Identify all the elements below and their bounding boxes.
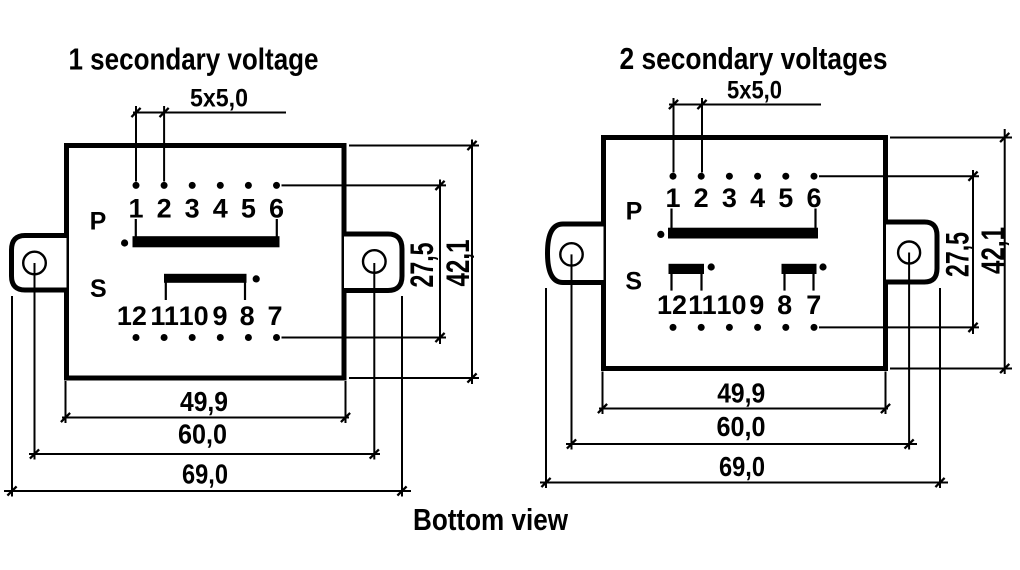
tick left 69,0 (left): [7, 486, 16, 495]
dimension line 27,5 (right): [972, 170, 974, 334]
pin 5 dot (right): [782, 173, 789, 180]
pin 6 dot (left): [273, 182, 280, 189]
pin 3 dot (left): [189, 182, 196, 189]
left tab hole (left diagram): [23, 252, 46, 275]
extension line from body top to 42,1 dim (left): [349, 145, 479, 147]
tick at pin1 (left 5x5,0): [131, 108, 140, 117]
tick right 49,9 (right): [881, 404, 890, 413]
right tab hole (left diagram): [363, 250, 386, 273]
pin 12 dot (left): [133, 334, 140, 341]
dimension line 49,9 (left): [62, 417, 349, 419]
secondary winding leg pin11 (left): [165, 283, 167, 301]
svg-text:5x5,0: 5x5,0: [727, 76, 782, 104]
tick left 49,9 (left): [61, 413, 70, 422]
svg-text:7: 7: [806, 290, 821, 320]
svg-text:49,9: 49,9: [717, 378, 765, 409]
tick bottom 27,5 (left): [435, 333, 444, 342]
secondary winding 2 bar (right): [782, 264, 817, 274]
extension line right hole for 60,0 (right): [908, 253, 910, 450]
svg-text:P: P: [90, 208, 107, 236]
pin 11 dot (right): [698, 324, 705, 331]
svg-text:11: 11: [688, 290, 717, 320]
svg-text:5: 5: [241, 194, 256, 224]
extension line pin1 (right 5x5,0): [673, 98, 675, 173]
tick bottom 42,1 (right): [1000, 364, 1009, 373]
secondary winding 1 phase dot (right): [708, 263, 715, 270]
primary phase dot (left): [121, 239, 128, 246]
extension line left hole for 60,0 (left): [34, 263, 36, 460]
tick right 60,0 (right): [905, 439, 914, 448]
pin 2 dot (right): [698, 173, 705, 180]
tick right 69,0 (left): [397, 486, 406, 495]
pin 8 dot (left): [245, 334, 252, 341]
dimension line 60,0 (right): [566, 443, 917, 445]
pin 5 dot (left): [245, 182, 252, 189]
pin 6 dot (right): [811, 173, 818, 180]
secondary winding 2 leg pin7 (right): [812, 274, 814, 291]
svg-text:3: 3: [722, 183, 737, 213]
pin 9 dot (left): [217, 334, 224, 341]
svg-text:27,5: 27,5: [940, 232, 976, 277]
svg-text:5x5,0: 5x5,0: [190, 85, 248, 113]
tick left 60,0 (right): [567, 439, 576, 448]
svg-text:60,0: 60,0: [178, 419, 227, 450]
secondary winding 2 leg pin8 (right): [783, 274, 785, 291]
dimension line 60,0 (left): [29, 453, 380, 455]
extension line pin1 (left 5x5,0): [135, 106, 137, 182]
pin 3 dot (right): [726, 173, 733, 180]
extension line left tab edge for 69,0 (left): [11, 296, 13, 497]
transformer body outline (right): [604, 138, 886, 369]
pin 10 dot (right): [726, 324, 733, 331]
tick top 27,5 (left): [435, 181, 444, 190]
dimension line 5x5,0 (right): [669, 104, 821, 106]
pin 10 dot (left): [189, 334, 196, 341]
extension line from pin 6 to 27,5 dim (left): [282, 184, 447, 186]
svg-text:1: 1: [665, 183, 680, 213]
left tab hole (right diagram): [560, 243, 582, 265]
svg-text:8: 8: [240, 301, 255, 331]
extension line right tab edge for 69,0 (right): [939, 288, 941, 488]
tick top 42,1 (left): [467, 141, 476, 150]
primary phase dot (right): [657, 231, 664, 238]
extension line body left for 49,9 (right): [602, 372, 604, 415]
svg-text:4: 4: [750, 183, 765, 213]
right mounting tab (left diagram): [344, 234, 402, 291]
tick at pin2 (left 5x5,0): [160, 108, 169, 117]
tick bottom 27,5 (right): [968, 323, 977, 332]
svg-text:5: 5: [778, 183, 793, 213]
pin 2 dot (left): [161, 182, 168, 189]
svg-text:2: 2: [157, 194, 172, 224]
primary winding leg pin6 (right): [814, 209, 816, 229]
extension line body left for 49,9 (left): [65, 381, 67, 423]
svg-text:42,1: 42,1: [440, 240, 476, 287]
pin 7 dot (right): [811, 324, 818, 331]
svg-text:10: 10: [716, 290, 746, 320]
svg-text:6: 6: [806, 183, 821, 213]
extension line from body bottom to 42,1 dim (right): [890, 368, 1012, 370]
dimension line 27,5 (left): [439, 180, 441, 345]
tick top 42,1 (right): [1000, 133, 1009, 142]
tick left 69,0 (right): [541, 478, 550, 487]
right tab hole (right diagram): [898, 242, 920, 264]
svg-text:3: 3: [185, 194, 200, 224]
extension line body right for 49,9 (left): [345, 381, 347, 423]
svg-text:8: 8: [777, 290, 792, 320]
dimension line 69,0 (left): [4, 490, 411, 492]
svg-text:2 secondary voltages: 2 secondary voltages: [620, 41, 888, 76]
pin 4 dot (left): [217, 182, 224, 189]
pin 1 dot (right): [670, 173, 677, 180]
svg-text:1 secondary voltage: 1 secondary voltage: [69, 42, 319, 77]
extension line from pin 7 to 27,5 dim (right): [819, 326, 979, 328]
secondary phase dot (left): [253, 275, 260, 282]
extension line right tab edge for 69,0 (left): [401, 296, 403, 497]
svg-text:Bottom view: Bottom view: [413, 502, 569, 537]
extension line body right for 49,9 (right): [885, 372, 887, 415]
left mounting tab (right diagram): [548, 224, 604, 283]
pin 8 dot (right): [782, 324, 789, 331]
svg-text:27,5: 27,5: [404, 243, 440, 288]
primary winding leg pin6 (left): [276, 219, 278, 237]
tick right 69,0 (right): [935, 478, 944, 487]
pin 9 dot (right): [754, 324, 761, 331]
dimension line 42,1 (right): [1004, 129, 1006, 374]
extension line from body top to 42,1 dim (right): [890, 137, 1012, 139]
extension line pin2 (left 5x5,0): [163, 106, 165, 182]
primary winding leg pin1 (right): [670, 209, 672, 229]
pin 1 dot (left): [133, 182, 140, 189]
svg-text:69,0: 69,0: [182, 459, 228, 490]
secondary winding 2 phase dot (right): [819, 263, 826, 270]
secondary winding 1 leg pin11 (right): [700, 274, 702, 291]
svg-text:69,0: 69,0: [719, 451, 765, 482]
svg-text:9: 9: [212, 301, 227, 331]
secondary winding bar (left): [164, 274, 247, 283]
extension line from pin 7 to 27,5 dim (left): [282, 337, 447, 339]
svg-text:S: S: [625, 268, 642, 296]
left mounting tab (left diagram): [12, 236, 67, 291]
transformer body outline (left): [67, 146, 345, 379]
tick top 27,5 (right): [968, 172, 977, 181]
svg-text:P: P: [626, 198, 643, 226]
extension line left hole for 60,0 (right): [571, 254, 573, 449]
extension line left tab edge for 69,0 (right): [545, 288, 547, 488]
primary winding bar (left): [133, 236, 280, 247]
extension line right hole for 60,0 (left): [373, 263, 375, 460]
pin 11 dot (left): [161, 334, 168, 341]
secondary winding 1 bar (right): [669, 264, 705, 274]
extension line from pin 6 to 27,5 dim (right): [819, 175, 979, 177]
extension line pin2 (right 5x5,0): [701, 98, 703, 173]
svg-text:49,9: 49,9: [180, 386, 228, 417]
pin 12 dot (right): [670, 324, 677, 331]
tick at pin1 (right 5x5,0): [669, 100, 678, 109]
tick bottom 42,1 (left): [467, 373, 476, 382]
svg-text:9: 9: [749, 290, 764, 320]
pin 4 dot (right): [754, 173, 761, 180]
tick right 49,9 (left): [341, 413, 350, 422]
dimension line 49,9 (right): [599, 408, 888, 410]
svg-text:12: 12: [657, 290, 687, 320]
tick left 49,9 (right): [598, 404, 607, 413]
secondary winding 1 leg pin12 (right): [670, 274, 672, 291]
svg-text:60,0: 60,0: [717, 411, 766, 442]
tick left 60,0 (left): [30, 449, 39, 458]
svg-text:7: 7: [267, 301, 282, 331]
svg-text:42,1: 42,1: [975, 227, 1011, 274]
svg-text:4: 4: [213, 194, 228, 224]
tick at pin2 (right 5x5,0): [697, 100, 706, 109]
dimension line 42,1 (left): [471, 140, 473, 385]
primary winding bar (right): [668, 228, 818, 239]
primary winding leg pin1 (left): [135, 219, 137, 237]
dimension line 5x5,0 (left): [133, 112, 286, 114]
svg-text:12: 12: [117, 301, 147, 331]
dimension line 69,0 (right): [540, 482, 948, 484]
tick right 60,0 (left): [370, 449, 379, 458]
svg-text:S: S: [90, 275, 107, 303]
svg-text:2: 2: [694, 183, 709, 213]
svg-text:11: 11: [150, 301, 179, 331]
extension line from body bottom to 42,1 dim (left): [349, 377, 479, 379]
pin 7 dot (left): [273, 334, 280, 341]
right mounting tab (right diagram): [886, 222, 937, 282]
secondary winding leg pin8 (left): [244, 283, 246, 301]
svg-text:10: 10: [179, 301, 209, 331]
